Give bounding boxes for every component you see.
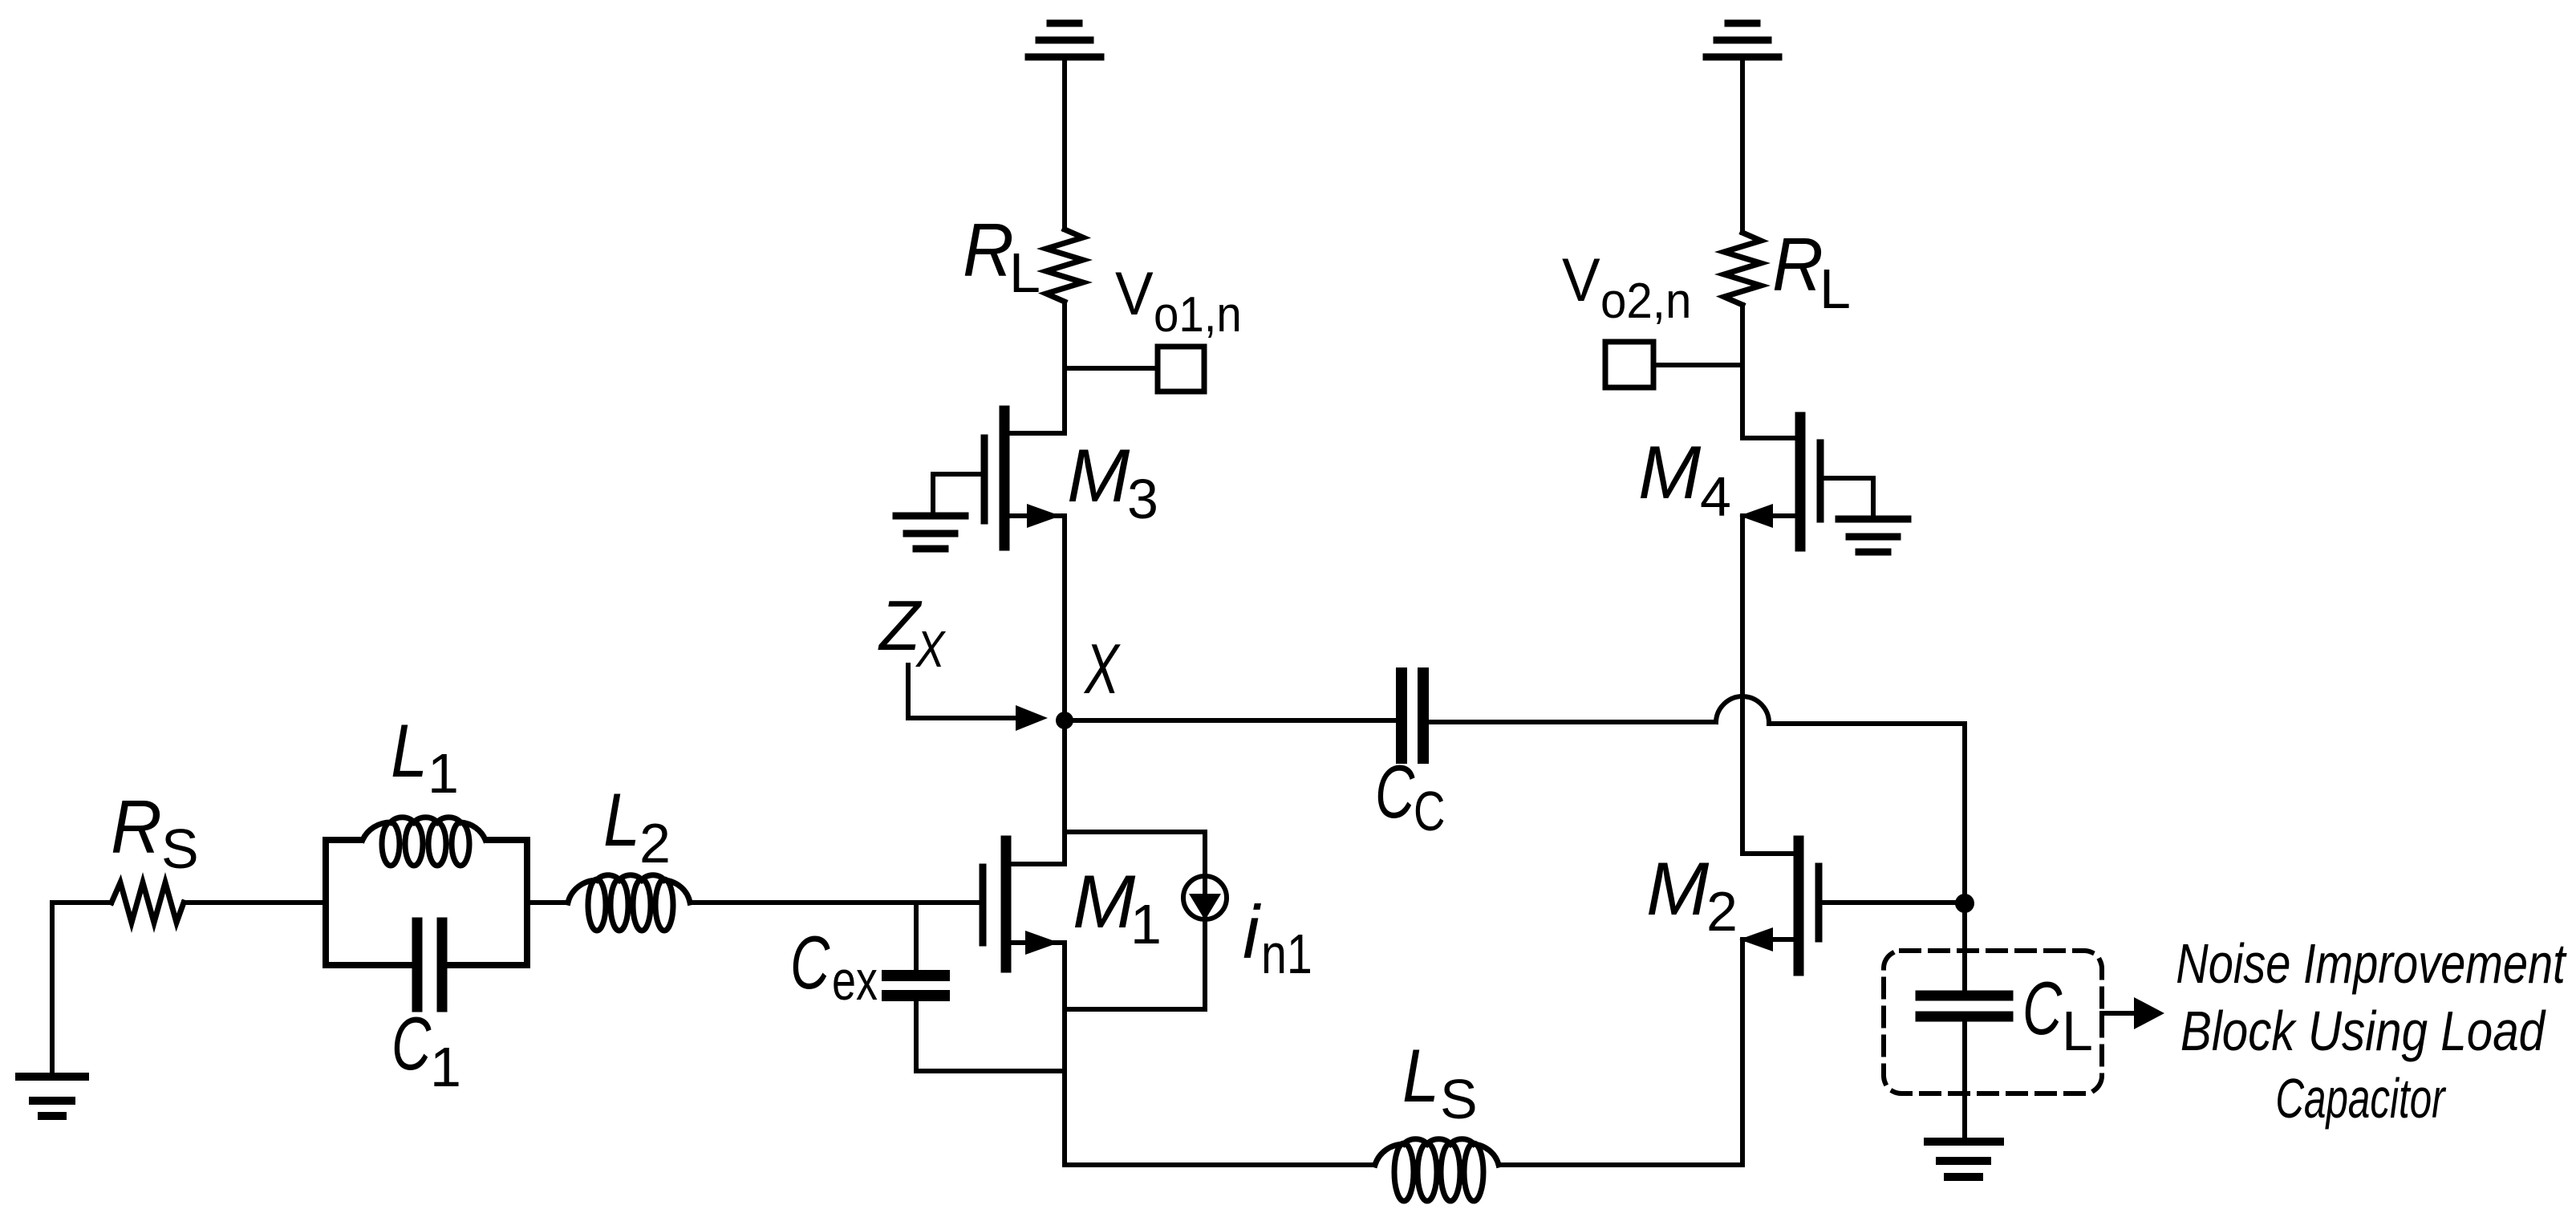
wire: R_L top to supply ground [1062,57,1067,229]
svg-text:1: 1 [430,1036,461,1098]
capacitor Cex [887,976,944,996]
label R_L (right) [1772,223,1851,320]
svg-text:V: V [1562,245,1600,314]
transistor M3 (cascode NMOS, left) [984,411,1065,546]
wire: arrow from noise block to caption [2102,997,2164,1029]
wire: M3 source down to node X [1062,516,1067,720]
svg-text:C: C [391,1002,432,1085]
capacitor C1 (bottom branch of tank) [417,923,442,1007]
svg-text:Capacitor: Capacitor [2275,1066,2446,1130]
ground (M4 gate AC ground) [1839,519,1908,552]
wire: R_L top to supply ground (right) [1740,57,1745,233]
transistor M1 (common-source NMOS) [983,841,1065,968]
svg-text:o1,n: o1,n [1154,286,1242,343]
tank box wires (L1 parallel C1) [326,840,527,965]
label Vo1,n [1115,259,1242,343]
svg-text:1: 1 [1130,893,1162,955]
svg-text:C: C [1414,781,1445,843]
wire: tank to L2 [527,900,568,905]
svg-text:M: M [1067,433,1130,517]
wire: R_S to input tank [184,900,326,905]
svg-text:o2,n: o2,n [1600,273,1691,328]
port pad Vo1,n [1158,347,1204,392]
label Cex [790,921,878,1012]
svg-text:L: L [1009,241,1041,304]
resistor R_S [112,882,184,923]
svg-text:L: L [1402,1033,1439,1118]
label M2 [1646,846,1738,943]
label Vo2,n [1562,245,1691,328]
svg-text:C: C [790,921,830,1004]
transistor M4 (cascode NMOS, right mirrored) [1739,417,1820,546]
wire: M4 source down to M2 drain (under hop) [1740,516,1745,854]
label M4 [1638,430,1731,528]
node: M2 gate junction dot [1955,894,1974,913]
svg-text:i: i [1243,890,1261,974]
svg-text:3: 3 [1127,468,1158,530]
svg-text:S: S [1440,1068,1478,1130]
port pad Vo2,n [1605,342,1653,387]
svg-text:M: M [1646,846,1710,931]
ground (M3 gate AC ground) [896,516,965,549]
svg-text:2: 2 [639,812,671,874]
resistor R_L (left) [1046,229,1083,302]
wire: M3 gate lead [933,474,984,513]
ground (below CL) [1928,1142,2000,1177]
capacitor CC [1402,673,1423,758]
wire: input line to R_S [52,900,112,905]
svg-text:S: S [161,818,199,880]
wire: M3 drain up to output node Vo1 [1062,302,1067,433]
ground (supply rail, top left) [1028,23,1101,57]
wire: M4 gate lead [1820,478,1873,517]
label M1 [1073,859,1162,955]
wire: M2 gate node down into noise block [1962,903,1967,992]
svg-text:Noise Improvement: Noise Improvement [2176,933,2567,995]
label C1 [391,1002,461,1098]
label in1 [1243,890,1312,985]
wire: M1 source down to bottom rail (taps for in1 and Cex) [1062,943,1067,1165]
caption: Noise Improvement Block Using Load Capacitor [2176,933,2567,1130]
label R_L (left) [963,209,1041,304]
wire: Ls to M2 source leg [1499,1162,1742,1167]
wire: node X right to coupling capacitor CC [1065,718,1397,723]
svg-text:4: 4 [1700,465,1731,528]
node X (junction dot) [1056,712,1073,729]
inductor L2 [568,875,690,931]
label Ls [1402,1033,1478,1130]
wire: M2 gate lead [1819,900,1965,905]
wire: Cex bottom plate down and right to M1 source [916,1001,1065,1071]
capacitor CL [1921,996,2008,1016]
svg-text:C: C [2022,967,2063,1050]
svg-text:M: M [1073,859,1136,943]
svg-text:L: L [2062,1000,2093,1062]
svg-text:L: L [1819,258,1851,320]
wire: CC to crossover hop [1427,720,1716,724]
label M3 [1067,433,1158,530]
svg-text:L: L [603,777,640,862]
resistor R_L (right) [1724,233,1761,305]
svg-text:X: X [1083,630,1121,708]
current source in1 (channel noise of M1) [1065,832,1227,1009]
label L1 [391,708,459,805]
wire: CL bottom plate to ground [1962,1021,1967,1139]
label R_S [111,785,199,880]
svg-text:X: X [915,621,947,678]
dashed box (noise improvement block) [1884,951,2102,1093]
label ZX with probe arrow into node X [878,586,947,678]
ground (supply rail, top right) [1706,23,1779,57]
svg-text:Block Using Load: Block Using Load [2180,1000,2546,1062]
wire: hop over M4-M2 branch [1716,696,1769,724]
wire: M4 drain up to output node Vo2 [1740,305,1745,438]
inductor Ls (source degeneration) [1375,1139,1499,1201]
wire: M2 source down to bottom rail [1740,939,1745,1165]
wire: ZX probe arrow [908,665,1048,731]
svg-text:M: M [1638,430,1702,514]
wire: gate line down to Cex top plate [914,903,919,970]
wire: output node Vo2 to port pad [1653,363,1742,367]
svg-text:2: 2 [1706,880,1738,943]
label CC [1375,750,1445,842]
svg-text:C: C [1375,750,1415,834]
label CL [2022,967,2093,1062]
ground (source ground, bottom left) [19,1077,85,1116]
wire: M1 drain up to node X [1062,720,1067,864]
wire: L2 to M1 gate (through Cex tap) [690,900,980,905]
wire: hop to M2 gate corner [1769,724,1965,894]
svg-text:1: 1 [428,742,459,805]
svg-text:n1: n1 [1261,923,1312,986]
wire: M1 source rail to Ls [1065,1162,1375,1167]
svg-text:R: R [963,209,1014,293]
svg-text:R: R [1772,223,1823,307]
transistor M2 (mirrored NMOS, right) [1739,841,1819,971]
label L2 [603,777,671,874]
wire: ground up to input line [50,903,55,1073]
svg-text:ex: ex [832,949,878,1012]
wire: output node Vo1 to port pad [1065,366,1158,371]
inductor L1 (top branch of tank) [363,818,485,866]
svg-text:R: R [111,785,162,870]
svg-text:V: V [1115,259,1154,328]
svg-text:L: L [391,708,428,793]
